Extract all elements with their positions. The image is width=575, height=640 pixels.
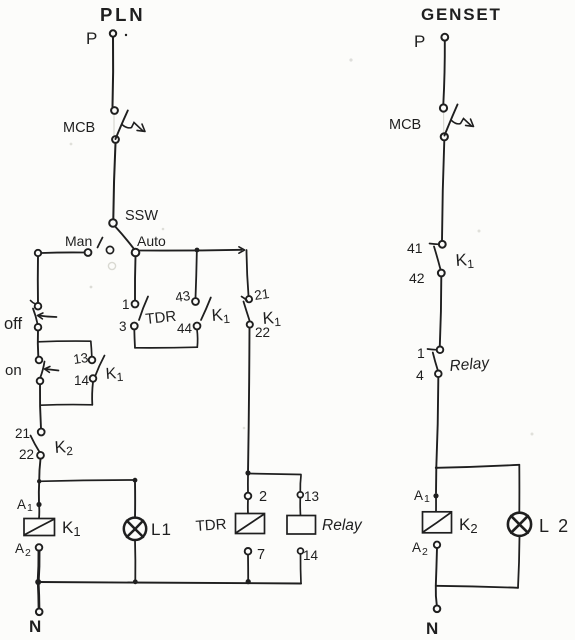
- wire: [436, 548, 437, 586]
- contact K1 41-42 pin 41: [407, 240, 423, 256]
- contact K2 21-22 pin 22: [19, 447, 34, 462]
- auxiliary contact K1 43-44: [192, 298, 211, 330]
- wire: [435, 468, 437, 493]
- node junction: [246, 579, 251, 584]
- wire: [135, 346, 197, 349]
- coil K2 (genset contactor): [423, 512, 452, 533]
- wire: [247, 250, 249, 296]
- auxiliary contact K1 43-44 pin 44: [177, 321, 193, 336]
- selector switch SSW: [98, 219, 135, 253]
- svg-text:2: 2: [422, 546, 428, 558]
- auxiliary contact K1 13-14 label: [105, 365, 124, 385]
- coil K2 pin A2: [412, 540, 428, 558]
- node A2 (K2 coil): [434, 542, 440, 548]
- net label GENSET: [421, 5, 502, 24]
- svg-text:A: A: [412, 540, 421, 555]
- svg-text:N: N: [29, 617, 41, 636]
- wire: [38, 481, 40, 503]
- svg-text:TDR: TDR: [145, 308, 178, 328]
- wire: [436, 465, 519, 468]
- wire: [299, 498, 301, 516]
- svg-text:13: 13: [304, 489, 319, 504]
- timer coil TDR: [236, 514, 265, 534]
- node junction: [133, 478, 138, 483]
- wire: [518, 465, 520, 513]
- timer coil TDR label: [195, 516, 227, 535]
- svg-text:21: 21: [15, 426, 30, 441]
- svg-text:Auto: Auto: [137, 233, 166, 249]
- svg-text:L1: L1: [151, 520, 172, 539]
- contact K1 21-22 pin 22: [255, 325, 270, 340]
- auxiliary contact K1 43-44 pin 43: [174, 288, 191, 305]
- node junction: [435, 466, 438, 469]
- relay coil Relay: [287, 516, 316, 535]
- coil K1 pin A1: [17, 497, 33, 514]
- contact K1 41-42 pin 42: [409, 270, 425, 286]
- timer coil TDR pin 2: [245, 489, 267, 505]
- node junction: [133, 579, 138, 584]
- wire: [40, 384, 41, 428]
- svg-text:21: 21: [253, 286, 270, 303]
- pushbutton On (NO): [36, 357, 59, 385]
- timer contact TDR 1-3 pin 3: [119, 319, 127, 334]
- breaker MCB (GENSET): [440, 104, 474, 140]
- svg-text:2: 2: [259, 489, 267, 505]
- svg-text:14: 14: [303, 548, 319, 563]
- node junction: [38, 340, 91, 343]
- svg-text:1: 1: [417, 345, 425, 361]
- svg-text:1: 1: [424, 493, 430, 505]
- wire: [196, 330, 199, 348]
- svg-text:L 2: L 2: [539, 516, 571, 536]
- wire: [436, 586, 518, 588]
- relay coil pin 13: [297, 489, 319, 504]
- wire: [37, 583, 40, 609]
- relay contact 1-4 pin 1: [417, 345, 425, 361]
- wire: [37, 551, 41, 582]
- svg-text:A: A: [414, 488, 423, 503]
- svg-text:SSW: SSW: [125, 208, 158, 224]
- wire: [196, 252, 197, 298]
- bus wire (neutral link): [38, 582, 301, 584]
- indicator lamp L1 branch wire: [134, 483, 136, 518]
- wire: [247, 555, 249, 582]
- node junction: [245, 470, 250, 475]
- wire: [443, 41, 445, 105]
- contact K2 21-22: [31, 429, 45, 459]
- wire: [113, 143, 115, 219]
- coil K2 label: [459, 515, 478, 536]
- pushbutton Off label: [4, 315, 22, 333]
- auxiliary contact K1 13-14 pin 13: [72, 350, 89, 367]
- relay coil pin 14: [298, 548, 319, 563]
- wire: [247, 476, 249, 493]
- svg-text:Relay: Relay: [322, 517, 363, 534]
- indicator lamp L2 label: [539, 516, 571, 536]
- auxiliary contact K1 13-14 pin 14: [74, 373, 90, 388]
- contact Auto (SSW auto position): [132, 233, 166, 256]
- coil K2 pin A1: [414, 488, 430, 505]
- svg-text:4: 4: [416, 367, 424, 383]
- wire: [247, 500, 249, 514]
- timer contact TDR 1-3 pin 1: [122, 297, 130, 312]
- terminal P (PLN phase): [86, 29, 127, 48]
- wire: [139, 249, 241, 252]
- relay coil label: [322, 517, 363, 534]
- wire: [248, 328, 250, 473]
- wire: [299, 476, 302, 492]
- svg-text:2: 2: [25, 547, 31, 559]
- svg-text:P: P: [414, 32, 425, 51]
- svg-text:on: on: [5, 362, 22, 379]
- coil K1 label: [62, 518, 81, 539]
- svg-text:A: A: [15, 541, 24, 556]
- breaker MCB (PLN) label: [63, 120, 95, 136]
- indicator lamp L2: [508, 513, 531, 536]
- svg-text:22: 22: [19, 447, 34, 462]
- svg-text:MCB: MCB: [389, 117, 421, 133]
- relay contact 1-4 pin 4: [416, 367, 424, 383]
- svg-text:TDR: TDR: [195, 516, 227, 535]
- wire: [37, 331, 39, 357]
- svg-text:Relay: Relay: [449, 354, 491, 374]
- terminal P (GENSET phase): [414, 32, 448, 51]
- timer contact TDR 1-3: [131, 297, 148, 330]
- svg-text:44: 44: [177, 321, 193, 336]
- coil K1 (contactor): [24, 519, 55, 536]
- wire: [436, 377, 438, 467]
- wire: [133, 330, 136, 348]
- wire: [38, 505, 40, 519]
- node corner: [35, 250, 41, 256]
- wire: [299, 554, 302, 584]
- svg-text:41: 41: [407, 240, 423, 256]
- wire: [248, 474, 301, 475]
- wire: [91, 341, 92, 356]
- relay contact label: [449, 354, 491, 374]
- svg-text:13: 13: [72, 350, 89, 367]
- wire: [42, 251, 85, 254]
- node junction: [195, 248, 200, 253]
- relay contact Relay 1-4: [428, 347, 444, 378]
- svg-text:7: 7: [257, 547, 265, 563]
- wire: [134, 540, 136, 582]
- wire: [41, 404, 92, 407]
- svg-text:PLN: PLN: [100, 4, 145, 25]
- contact Man (SSW manual position): [65, 233, 92, 256]
- breaker MCB (GENSET) label: [389, 117, 421, 133]
- wire: [134, 256, 137, 300]
- svg-text:MCB: MCB: [63, 120, 95, 136]
- auxiliary contact K1 13-14: [89, 356, 105, 382]
- wire: [442, 141, 444, 241]
- wire: [435, 496, 437, 512]
- svg-text:N: N: [426, 619, 438, 638]
- contact K1 21-22 label: [262, 308, 282, 330]
- svg-text:off: off: [4, 315, 22, 333]
- svg-text:A: A: [17, 497, 26, 512]
- contact K2 21-22 pin 21: [15, 426, 30, 441]
- selector switch SSW label: [125, 208, 158, 224]
- svg-text:1: 1: [122, 297, 130, 312]
- svg-text:42: 42: [409, 270, 425, 286]
- wire arrow into K1 21-22 branch: [239, 247, 245, 253]
- net label PLN: [100, 4, 145, 25]
- wire: [111, 37, 114, 107]
- node A1 (K2 coil): [433, 493, 438, 498]
- wire: [37, 256, 39, 303]
- indicator lamp L1: [124, 518, 146, 540]
- svg-text:14: 14: [74, 373, 90, 388]
- svg-text:P: P: [86, 29, 97, 48]
- wire: [518, 536, 520, 588]
- timer coil TDR pin 7: [245, 547, 265, 563]
- contact K1 21-22 pin 21: [253, 286, 270, 303]
- contact K2 21-22 label: [54, 437, 74, 459]
- svg-text:Man: Man: [65, 233, 92, 249]
- pushbutton Off (NC): [31, 301, 57, 331]
- breaker MCB (PLN): [111, 107, 145, 143]
- wire: [91, 382, 94, 405]
- contact K1 41-42 label: [455, 250, 475, 272]
- auxiliary contact K1 43-44 label: [211, 305, 231, 327]
- node junction: [37, 479, 41, 483]
- terminal N (GENSET neutral): [426, 606, 440, 639]
- coil K1 pin A2: [15, 541, 31, 559]
- contact K1 41-42: [430, 241, 446, 276]
- svg-text:43: 43: [174, 288, 191, 305]
- wire: [440, 277, 442, 347]
- svg-text:3: 3: [119, 319, 127, 334]
- contact K1 21-22: [242, 296, 253, 328]
- pushbutton On label: [5, 362, 22, 379]
- wire: [436, 586, 437, 605]
- wire: [39, 480, 135, 481]
- svg-text:1: 1: [27, 502, 33, 514]
- wire: [39, 459, 40, 481]
- node A1 (K1 coil): [36, 502, 41, 507]
- timer contact TDR 1-3 label: [145, 308, 178, 328]
- node junction: [35, 579, 41, 585]
- svg-text:GENSET: GENSET: [421, 5, 502, 24]
- terminal N (PLN neutral): [29, 609, 43, 637]
- node A2 (K1 coil): [36, 544, 43, 551]
- indicator lamp L1 label: [151, 520, 172, 539]
